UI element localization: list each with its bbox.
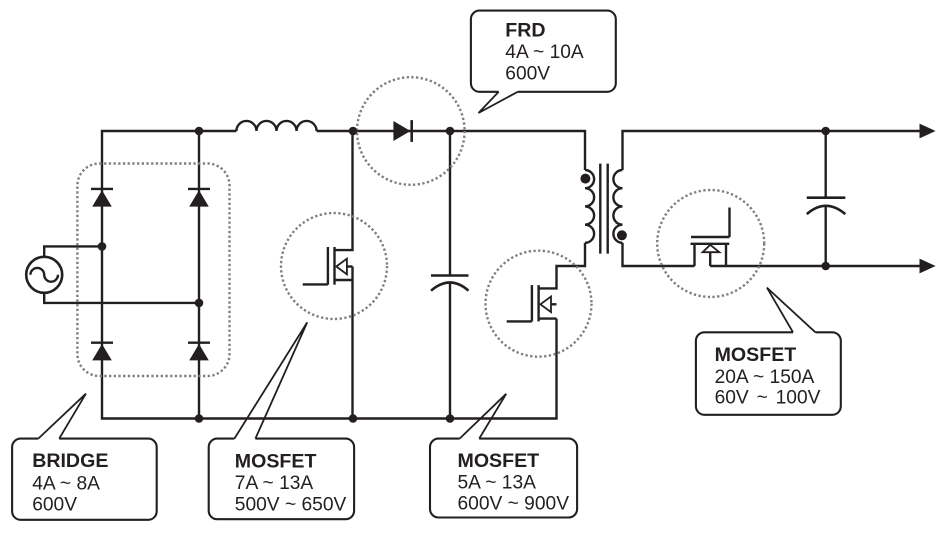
callout box MOSFET (PFC) (209, 322, 354, 519)
node AC top (98, 242, 107, 251)
node bottom rail Q1 source (349, 414, 358, 423)
FRD dotted circle (357, 77, 465, 185)
svg-text:5A ~ 13A: 5A ~ 13A (458, 473, 537, 494)
svg-text:4A ~ 8A: 4A ~ 8A (32, 473, 100, 494)
transformer primary winding (585, 170, 594, 243)
MOSFET Q1 (PFC switch) (303, 131, 353, 419)
svg-text:7A ~ 13A: 7A ~ 13A (235, 473, 314, 494)
node AC bottom (195, 299, 204, 308)
svg-text:BRIDGE: BRIDGE (32, 450, 108, 472)
diode D3 (bridge bottom-left) (91, 343, 113, 361)
callout box MOSFET (sync rectifier) (696, 288, 841, 415)
MOSFET Q2 dotted circle (486, 251, 592, 357)
wire secondary top lead + output top rail (623, 131, 932, 170)
svg-text:4A ~ 10A: 4A ~ 10A (505, 42, 584, 63)
output arrow bottom (920, 259, 936, 274)
svg-text:FRD: FRD (505, 20, 545, 42)
wire top rail mid to transformer primary top lead (317, 131, 585, 170)
MOSFET Q2 (main switch) (507, 243, 585, 322)
node top rail C1 (446, 127, 455, 136)
svg-text:60V ~ 100V: 60V ~ 100V (715, 388, 821, 409)
MOSFET Q3 dotted circle (657, 190, 764, 297)
node top rail Q1 drain (349, 127, 358, 136)
wire AC source top lead (44, 246, 102, 256)
svg-text:600V ~ 900V: 600V ~ 900V (458, 494, 570, 515)
diode D4 (bridge bottom-right) (188, 343, 210, 361)
node bottom rail C1 (446, 414, 455, 423)
svg-text:MOSFET: MOSFET (235, 451, 317, 473)
transformer core (600, 164, 607, 254)
wire bridge right vertical (198, 131, 200, 419)
capacitor C1 (bus capacitor) (431, 276, 469, 291)
node top rail bridge (195, 127, 204, 136)
svg-text:600V: 600V (505, 64, 550, 85)
diode D1 (bridge top-left) (91, 189, 113, 207)
bridge dotted outline (77, 164, 229, 377)
wire capacitor C1 top lead (449, 131, 451, 276)
svg-text:MOSFET: MOSFET (715, 344, 797, 366)
wire output bottom rail right segment (710, 265, 931, 267)
node output bottom C2 (821, 262, 830, 271)
MOSFET Q1 dotted circle (281, 213, 387, 319)
node bottom rail bridge (195, 414, 204, 423)
transformer secondary winding (613, 170, 622, 243)
capacitor C2 (output capacitor) (807, 198, 846, 214)
wire top rail left + bridge left vertical + bottom rail (102, 131, 557, 419)
transformer primary polarity dot (580, 174, 590, 184)
transformer secondary polarity dot (617, 230, 627, 240)
MOSFET Q3 (sync rectifier) (691, 208, 730, 267)
AC source V1 (26, 257, 62, 293)
wire secondary bottom lead + output bottom rail left segment (623, 243, 695, 266)
svg-text:20A ~ 150A: 20A ~ 150A (715, 367, 815, 388)
node output top C2 (821, 127, 830, 136)
svg-text:600V: 600V (32, 494, 77, 515)
wire capacitor C2 bottom lead (825, 206, 827, 266)
inductor L1 (236, 121, 316, 131)
diode D2 (bridge top-right) (188, 189, 210, 207)
callout box BRIDGE (12, 394, 157, 520)
wire capacitor C2 top lead (825, 131, 827, 198)
wire AC source bottom lead (44, 293, 199, 303)
transformer T1 (585, 164, 623, 254)
output arrow top (920, 124, 936, 139)
svg-text:MOSFET: MOSFET (458, 450, 540, 472)
callout box MOSFET (main) (430, 394, 577, 518)
svg-text:500V ~ 650V: 500V ~ 650V (235, 494, 347, 515)
callout box FRD (471, 11, 616, 113)
diode FRD D5 (393, 120, 411, 142)
wire capacitor C1 bottom lead (449, 283, 451, 419)
